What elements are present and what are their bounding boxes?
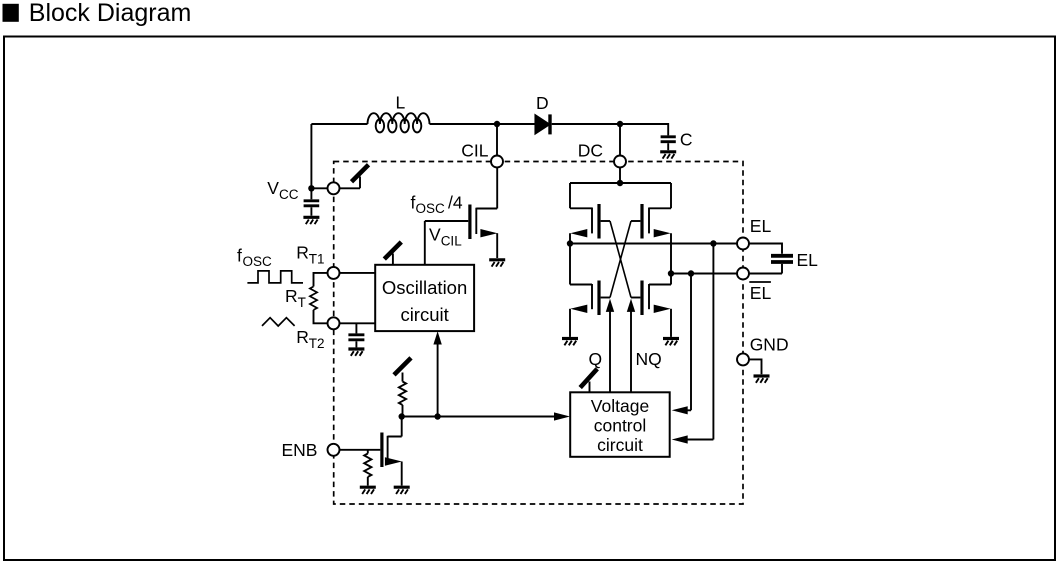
pin ENB	[328, 444, 340, 456]
node ELbar output dot	[668, 270, 674, 276]
ground at GND pin	[754, 376, 770, 383]
svg-text:ENB: ENB	[282, 440, 318, 460]
wire ENB pin to gate	[340, 449, 381, 451]
node EL feedback tap dot	[710, 240, 716, 246]
svg-text:D: D	[536, 93, 549, 113]
wire GND pin to ground	[749, 359, 762, 374]
svg-text:Block Diagram: Block Diagram	[29, 0, 192, 27]
label RT1	[296, 242, 324, 266]
svg-text:OSC: OSC	[416, 201, 446, 216]
pin GND	[737, 335, 789, 366]
wire bridge top rail	[570, 182, 671, 184]
node ENB drain dot	[399, 413, 405, 419]
node VCC junction dot	[308, 185, 314, 191]
switch slash at VCC	[352, 165, 369, 182]
node CIL junction dot	[494, 121, 500, 127]
svg-text:GND: GND	[750, 335, 789, 355]
wire ENB node to voltage control with arrow	[402, 412, 570, 420]
svg-text:control: control	[594, 416, 647, 436]
sawtooth wave symbol	[262, 318, 295, 326]
transistor PMOS upper left	[570, 204, 610, 239]
ground under ENB pulldown	[360, 487, 376, 494]
wire RT2 pin to oscillation box	[340, 322, 376, 324]
ground under NMOS lower right	[663, 339, 679, 346]
wire inductor to diode	[430, 123, 536, 125]
square wave symbol	[247, 271, 303, 283]
node branch dot to oscillation	[434, 413, 440, 419]
resistor RT	[310, 273, 328, 323]
svg-text:Oscillation: Oscillation	[382, 277, 467, 298]
IC boundary dashed box	[334, 162, 743, 505]
op-amp block Oscillation circuit	[375, 265, 474, 331]
wire feedback from EL line	[672, 244, 714, 444]
title Block Diagram	[3, 0, 192, 27]
wire VCIL	[424, 221, 426, 265]
ground under NMOS lower left	[562, 339, 578, 346]
wire DC drop	[619, 124, 621, 156]
switch slash above trim resistor	[394, 358, 411, 375]
wire VCC drop from rail	[310, 124, 312, 188]
transistor NMOS lower left	[570, 281, 610, 337]
transistor ENB MOSFET	[380, 417, 402, 486]
svg-text:R: R	[296, 327, 309, 347]
pin EL	[737, 216, 771, 250]
capacitor EL panel	[749, 244, 818, 274]
svg-text:NQ: NQ	[636, 349, 662, 369]
label fOSC	[237, 246, 272, 269]
wire ELbar output line	[671, 273, 737, 275]
wire RT1 pin to oscillation box	[340, 272, 376, 274]
label RT	[285, 286, 306, 310]
pin RT2	[328, 317, 340, 329]
svg-text:L: L	[396, 93, 406, 113]
ground under RT2 capacitor	[348, 349, 364, 356]
switch slash on oscillation box	[384, 242, 401, 265]
label ENB	[282, 440, 318, 460]
svg-text:V: V	[429, 225, 441, 245]
svg-text:EL: EL	[750, 283, 772, 303]
node bridge top dot	[617, 180, 623, 186]
wire up to oscillation box with arrow	[433, 331, 441, 416]
wire VCC pin to switch	[340, 177, 361, 189]
wire VCC dot to pin	[311, 187, 327, 189]
transistor NMOS lower right	[631, 281, 671, 337]
svg-text:Voltage: Voltage	[591, 396, 649, 416]
diode D	[535, 93, 550, 134]
ground under ENB MOSFET	[394, 487, 410, 494]
inductor L	[368, 93, 430, 133]
svg-text:/4: /4	[448, 193, 463, 213]
pin RT1	[328, 267, 340, 279]
ground under C	[660, 152, 676, 159]
node EL output dot left	[567, 240, 573, 246]
svg-text:EL: EL	[797, 250, 819, 270]
wire bridge left rail	[569, 183, 571, 285]
node DC junction dot	[617, 121, 623, 127]
svg-text:V: V	[267, 178, 279, 198]
pin DC	[578, 141, 626, 168]
svg-text:T2: T2	[309, 336, 325, 351]
pin ELbar	[737, 268, 771, 304]
wire DC pin to bridge rail	[619, 168, 621, 184]
svg-text:R: R	[285, 286, 298, 306]
capacitor on VCC	[304, 188, 320, 215]
svg-text:OSC: OSC	[243, 254, 273, 269]
svg-text:circuit: circuit	[597, 435, 643, 455]
svg-text:circuit: circuit	[400, 304, 448, 325]
ground under fOSC/4 MOSFET	[489, 260, 505, 267]
label fOSC/4	[411, 192, 463, 216]
wire feedback from ELbar line	[672, 274, 691, 415]
svg-text:T1: T1	[309, 251, 325, 266]
block Voltage control circuit	[570, 392, 670, 457]
switch slash on voltage control box	[580, 369, 597, 393]
wire diode to C	[552, 124, 669, 135]
label VCIL	[429, 225, 462, 249]
svg-text:CIL: CIL	[441, 234, 463, 249]
svg-text:Q: Q	[589, 349, 603, 369]
pin VCC	[328, 182, 340, 194]
svg-text:CIL: CIL	[461, 141, 489, 161]
ground under VCC capacitor	[303, 217, 319, 224]
wire Q with arrow	[589, 299, 615, 393]
resistor trim above ENB	[399, 373, 406, 417]
wire EL output line	[570, 243, 737, 245]
transistor fOSC/4 MOSFET	[425, 168, 498, 259]
pin CIL	[461, 141, 503, 168]
label RT2	[296, 327, 324, 351]
wire NQ with arrow	[627, 299, 662, 393]
node ELbar feedback tap dot	[688, 270, 694, 276]
svg-text:EL: EL	[750, 216, 772, 236]
capacitor on RT2	[348, 323, 364, 347]
svg-text:f: f	[237, 246, 242, 266]
label VCC	[267, 178, 298, 202]
svg-text:R: R	[296, 242, 309, 262]
wire top rail left	[311, 123, 367, 125]
svg-text:C: C	[680, 130, 693, 150]
wire bridge right rail	[670, 183, 672, 285]
resistor ENB pulldown	[364, 450, 371, 486]
svg-text:T: T	[298, 295, 306, 310]
capacitor C	[661, 130, 693, 151]
wire CIL drop	[496, 124, 498, 156]
svg-text:CC: CC	[279, 187, 299, 202]
transistor PMOS upper right	[631, 204, 671, 239]
svg-text:DC: DC	[578, 141, 603, 161]
wire cross coupling X	[610, 221, 631, 298]
